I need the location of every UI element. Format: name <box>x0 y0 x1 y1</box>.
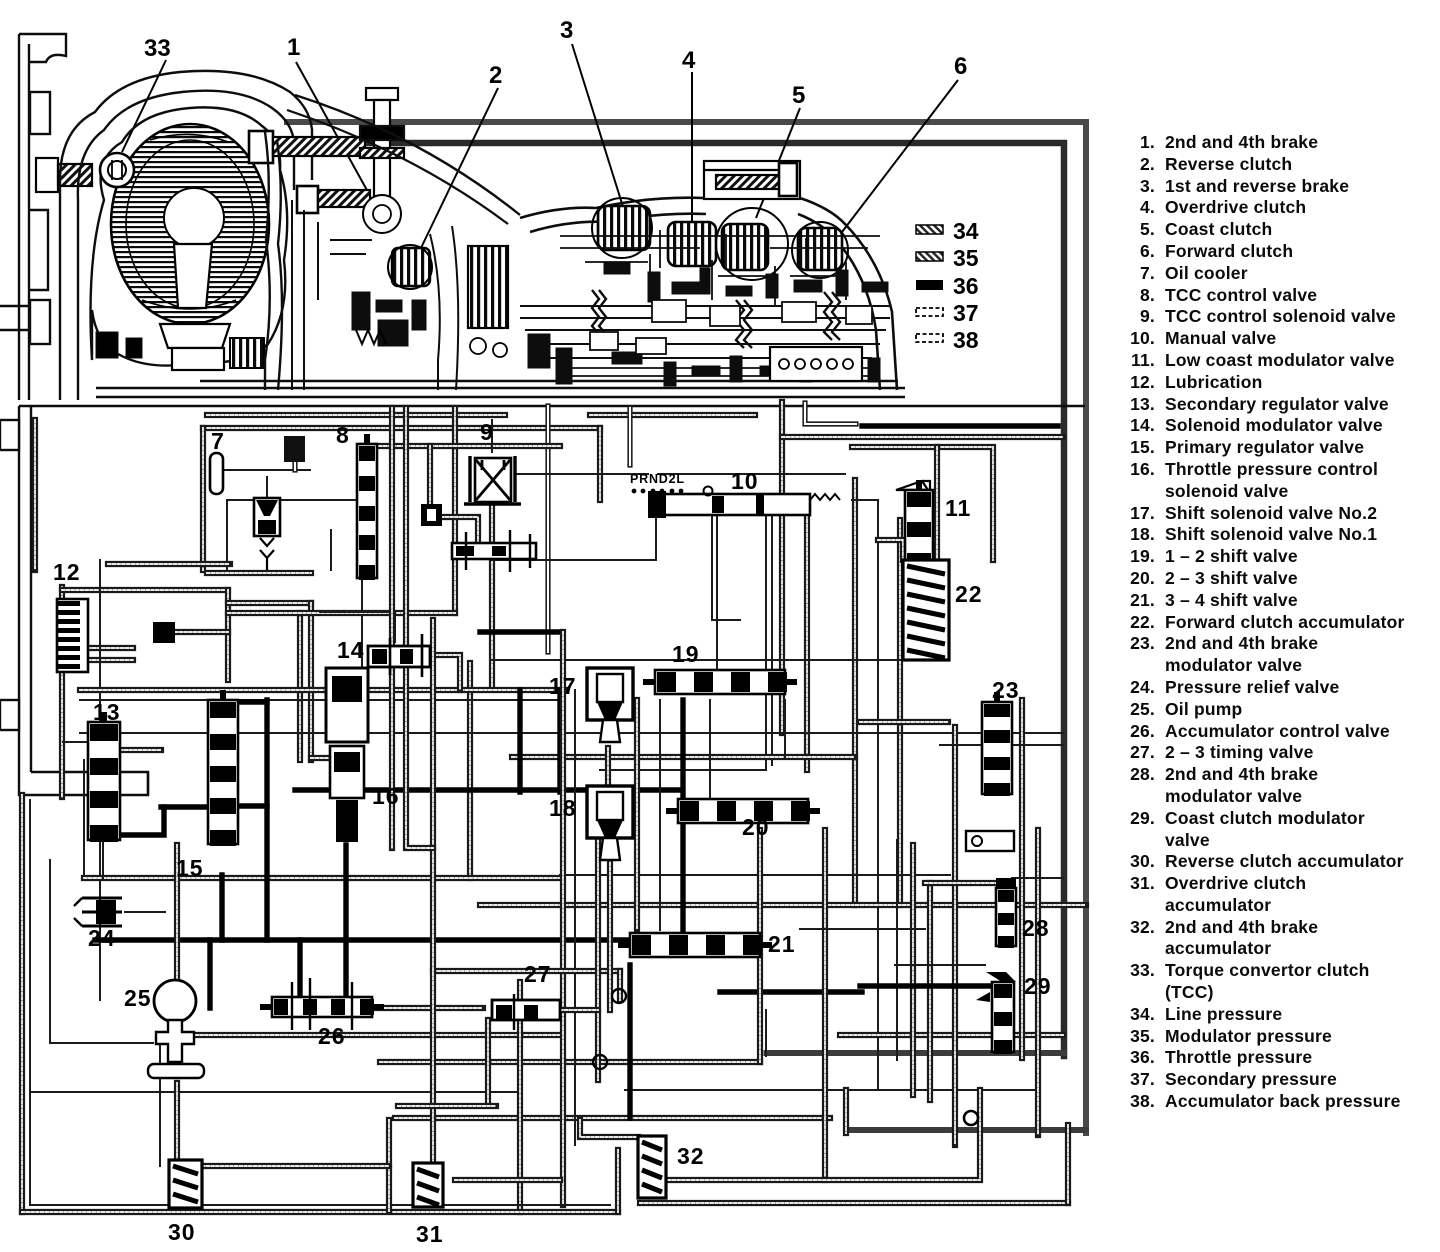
clutch drum 5 <box>722 224 768 270</box>
wire long v 406 <box>406 408 433 848</box>
svg-text:11: 11 <box>945 495 971 521</box>
wire 27 right <box>560 1007 598 1013</box>
wire rail 1062 <box>380 1059 760 1065</box>
svg-text:30: 30 <box>168 1219 196 1245</box>
svg-text:34: 34 <box>953 218 979 244</box>
wire black 19-21 <box>680 700 685 930</box>
wire 13 right <box>120 747 161 753</box>
wire v 520 low <box>517 982 523 1212</box>
wire inner box left <box>226 500 228 573</box>
right case outline <box>520 198 897 390</box>
legend list <box>1121 132 1405 1113</box>
wire inner box top <box>227 499 362 501</box>
wire 28 rail right <box>1012 877 1063 879</box>
wire 23 rail <box>940 744 1063 746</box>
wire bottom up right <box>1065 1125 1071 1203</box>
wire 20 down <box>757 830 763 1062</box>
wire rail 437 <box>782 434 1063 440</box>
wire long v 433 <box>430 620 436 1205</box>
svg-text:36: 36 <box>953 273 979 299</box>
wire 10 drop b <box>771 516 773 765</box>
svg-text:2: 2 <box>489 62 502 89</box>
wire 24 right <box>125 911 165 913</box>
wire v 228 <box>225 590 231 680</box>
wire rail 905 <box>480 902 1086 908</box>
wire loop top rail <box>108 561 230 567</box>
mid small circles <box>470 338 486 354</box>
wire rail 613 <box>228 610 455 616</box>
junction box 8-9 <box>421 504 442 526</box>
wire right drop 766 <box>765 1010 767 1056</box>
wire 9 down long <box>489 505 495 688</box>
wire black 702 <box>210 699 267 704</box>
clutch drum 3 <box>598 206 650 250</box>
svg-text:5: 5 <box>792 82 805 109</box>
wire rail 1090 right <box>625 1089 1035 1091</box>
transmission case left flange <box>0 34 66 400</box>
svg-text:22: 22 <box>955 581 983 607</box>
callout circle 5 <box>716 208 788 280</box>
wire cooler tube <box>223 469 310 471</box>
svg-text:38: 38 <box>953 327 979 353</box>
wire cooler box left <box>200 428 206 570</box>
wire v 563 <box>560 632 566 1205</box>
wire loop rail b <box>207 570 311 576</box>
reverse clutch accumulator 30 <box>169 1160 202 1208</box>
wire v 1038 <box>1035 830 1041 1135</box>
node box on rail 857 <box>966 831 1014 851</box>
wire top rail a <box>207 412 505 418</box>
svg-text:19: 19 <box>672 641 700 667</box>
wire rail 929 <box>800 928 925 930</box>
svg-text:15: 15 <box>176 855 204 881</box>
wire rail 1118 <box>395 1115 830 1121</box>
hub cluster below drum2 <box>352 292 426 346</box>
wire 22 bottom <box>860 719 948 725</box>
flange hex bolt <box>36 158 92 192</box>
wire black rail 940 <box>95 937 680 942</box>
wire rail 1035 <box>177 1032 560 1038</box>
wire v 610 low <box>607 830 613 1010</box>
wire bottom rail right <box>640 1200 1068 1206</box>
lower left case <box>0 406 148 795</box>
pressure relief valve 24 <box>74 898 122 926</box>
callout line 2 <box>420 88 498 250</box>
wire rail 447 corner <box>852 447 993 560</box>
wire 13-15 black elbow <box>95 807 164 835</box>
svg-text:27: 27 <box>524 961 552 987</box>
wire 26 black v <box>297 940 302 996</box>
wire 27 box top <box>433 968 620 974</box>
node circle rail 1062 <box>593 1055 607 1069</box>
callout line 6 <box>842 80 958 232</box>
wire 19-21 drop <box>634 700 640 930</box>
wire 31 drop <box>386 1120 392 1211</box>
svg-text:8: 8 <box>336 422 350 448</box>
wire rail 878 <box>84 875 560 881</box>
wire left drop <box>32 420 38 570</box>
wire 26 black in <box>207 940 212 1008</box>
callout circle 3 <box>592 198 652 258</box>
wire 27 box right <box>617 971 623 1000</box>
manual valve 10 <box>648 487 840 519</box>
ribbed block mid <box>468 246 508 328</box>
wire 10 drop hatched <box>804 515 810 770</box>
svg-text:16: 16 <box>372 783 400 809</box>
wire rail 603 <box>228 600 311 606</box>
forward clutch accumulator 22 <box>903 560 949 660</box>
wire left border <box>19 795 25 1212</box>
wire 10 left down <box>492 516 656 560</box>
low coast modulator valve 11 hat <box>896 481 930 493</box>
wire 28 feed <box>925 880 1010 886</box>
wire v 598 <box>595 840 601 1080</box>
node circle 27 right <box>612 989 626 1003</box>
wire long v 575 <box>574 690 576 1145</box>
svg-text:13: 13 <box>93 699 121 725</box>
wire 10 drop a <box>765 516 767 770</box>
wire 9 to manual valve <box>517 473 648 475</box>
1-2 shift valve 19 <box>643 670 797 694</box>
wire junction to check assy <box>441 517 478 546</box>
svg-text:3: 3 <box>560 17 573 44</box>
throttle pressure key bar 36 <box>916 280 943 290</box>
wire thin rail 660 <box>490 659 925 661</box>
wire 10 down a <box>712 516 740 620</box>
svg-text:26: 26 <box>318 1023 346 1049</box>
shift solenoid valve No.1 (18) <box>587 786 633 860</box>
oil cooler 7 <box>210 436 305 570</box>
coast clutch modulator valve 29 <box>992 972 1014 1054</box>
wire case drop 782 <box>779 402 785 733</box>
wire top rail b <box>590 412 755 418</box>
wire pump down <box>174 1083 180 1160</box>
wire v 930 <box>927 883 933 1100</box>
wire into 32 <box>580 1120 638 1137</box>
wire 8 down <box>361 578 363 690</box>
wire v 855 <box>852 480 858 905</box>
wire v long 955 <box>952 727 958 1145</box>
spring W <box>356 330 386 344</box>
callout line 5 <box>756 108 800 218</box>
wire black v 520 <box>517 690 522 792</box>
bolt pedestal <box>704 161 800 199</box>
wire check down <box>330 530 332 570</box>
svg-text:PRND2L: PRND2L <box>630 472 685 486</box>
second bolt <box>297 186 370 213</box>
wire 15 to black v <box>236 803 267 808</box>
wire rail 875 thin <box>560 874 950 876</box>
shaft lines <box>520 306 890 358</box>
2nd and 4th brake modulator valve 23 <box>982 692 1012 796</box>
wire 21 down <box>627 965 632 1118</box>
svg-text:24: 24 <box>88 925 116 951</box>
wire black rail 992 <box>720 989 862 994</box>
wire 13 left <box>63 741 86 743</box>
accumulator back pressure key bar 38 <box>916 334 943 342</box>
bell housing scalloped contours <box>60 71 312 400</box>
wire 19 to 20 <box>709 700 711 797</box>
wire 17 down <box>605 748 611 786</box>
callout line 4 <box>691 72 693 222</box>
3-4 shift valve 21 <box>618 933 772 957</box>
wire top outer frame <box>287 122 1086 1133</box>
28 top cap <box>996 878 1016 888</box>
gear blocks row <box>528 262 888 386</box>
svg-text:7: 7 <box>211 428 225 454</box>
svg-text:35: 35 <box>953 245 979 271</box>
wire corner white pipe <box>805 403 856 424</box>
wire black rail 790 <box>295 787 680 792</box>
29 hat <box>986 972 1016 982</box>
wire 32 rail <box>668 1090 980 1180</box>
svg-text:6: 6 <box>954 53 967 80</box>
2-3 shift valve 20 <box>666 799 820 823</box>
wire 9 up <box>491 420 493 452</box>
2nd and 4th brake modulator valve 28 <box>996 878 1016 948</box>
stud and anchor (item 1) <box>360 88 404 233</box>
svg-text:21: 21 <box>768 931 796 957</box>
svg-text:10: 10 <box>731 468 759 494</box>
wire 13 down <box>102 840 104 878</box>
svg-text:14: 14 <box>337 637 365 663</box>
bell right wall <box>265 132 282 390</box>
bottom case band <box>19 381 1085 406</box>
2nd and 4th brake accumulator 32 <box>638 1136 666 1198</box>
wire 16 down <box>343 845 348 997</box>
wire bottom border <box>22 1209 618 1215</box>
wire 14 up <box>320 612 395 642</box>
wire bottom right outer <box>846 1127 1086 1133</box>
springs <box>592 290 840 348</box>
callout line 1 <box>296 62 368 192</box>
low coast modulator valve 11 <box>905 480 933 568</box>
wire cooler box right <box>597 428 603 500</box>
wire comb a <box>88 645 133 651</box>
check valve assembly <box>452 530 536 572</box>
wire mid rail 690 <box>80 687 565 693</box>
wire 10 to 19 <box>716 516 718 668</box>
wire 26 right <box>375 1005 483 1011</box>
wire drop to junction <box>427 446 433 504</box>
callout line 3 <box>572 44 624 210</box>
wire v 311 <box>308 603 314 760</box>
wire 29 rail <box>895 964 985 966</box>
wire v 300 <box>297 613 303 760</box>
modulator pressure key bar 35 <box>916 252 943 261</box>
middle case walls <box>292 200 458 390</box>
case top diagonal edge <box>295 95 520 215</box>
solenoid modulator valve 14 <box>368 634 430 677</box>
wire rail 1035 right <box>840 1032 1063 1038</box>
wire black v 267 <box>264 700 269 940</box>
wire rail to black box <box>658 473 845 475</box>
wire 30 vert <box>159 1046 161 1166</box>
line pressure key bar 34 <box>916 225 943 234</box>
clutch drum 6 <box>798 228 842 270</box>
wire v 897 <box>896 840 898 1060</box>
wire long v 470 <box>467 663 473 878</box>
TCC control solenoid valve 9 <box>464 456 521 504</box>
bell bottom hub parts <box>96 324 264 370</box>
wire left border inner <box>29 800 31 1205</box>
svg-text:4: 4 <box>682 47 696 74</box>
wire v 1022 <box>1019 700 1025 1058</box>
svg-text:23: 23 <box>992 677 1020 703</box>
wire right long drop <box>897 520 903 905</box>
solenoid connector block <box>770 347 862 381</box>
wire black v 560 <box>557 690 562 792</box>
callout line 33 <box>122 60 166 152</box>
wire lube box left <box>59 587 65 797</box>
wire left long vertical <box>99 560 101 1000</box>
svg-text:18: 18 <box>549 795 577 821</box>
wire cooler box top <box>203 425 600 431</box>
wire 15 down <box>219 875 224 940</box>
svg-text:17: 17 <box>549 673 577 699</box>
wire 31 rail <box>455 1177 560 1183</box>
wire 19-21 thin <box>659 700 661 930</box>
wire 29 black feed <box>860 983 1002 988</box>
wire to 22 <box>878 540 903 560</box>
wire v 913 <box>910 845 916 1095</box>
overdrive clutch accumulator 31 <box>413 1163 443 1207</box>
wire rail above 8 <box>360 443 560 449</box>
wire bottom right up <box>615 1150 621 1212</box>
wire rail 757 <box>512 754 855 760</box>
wire 10 right squiggle drop <box>852 500 878 1090</box>
svg-text:1: 1 <box>287 34 300 61</box>
wire top inner frame <box>287 143 1064 1056</box>
wire 30 rail <box>202 1163 389 1169</box>
svg-text:29: 29 <box>1024 973 1052 999</box>
svg-text:31: 31 <box>416 1221 444 1247</box>
wire rail 1092 <box>30 1091 520 1093</box>
oil pump 25 <box>148 980 204 1078</box>
wire into 16 <box>311 755 342 761</box>
wire black 632 <box>480 629 563 634</box>
wire 27 left down <box>485 1020 491 1103</box>
wire 14 right <box>430 655 460 690</box>
wire cooler riser <box>292 462 297 470</box>
callout circle 2 <box>388 245 432 289</box>
wire right drop 846 <box>843 1090 849 1133</box>
wire to check valve <box>266 477 268 498</box>
svg-text:9: 9 <box>480 419 494 445</box>
primary regulator valve 15 <box>208 690 238 846</box>
wire 19 right down <box>784 700 786 757</box>
wire cooler return drop <box>452 408 458 613</box>
clutch drum 4 <box>668 222 716 266</box>
wire 15 in <box>161 804 206 809</box>
wire rail 426 <box>862 423 1058 428</box>
wire long v 392 <box>389 408 395 848</box>
lubrication 12 <box>57 599 175 672</box>
wire long drop to 19 <box>545 406 550 652</box>
wire long thin rail 733 <box>80 732 1063 734</box>
wire 770 left <box>600 769 766 771</box>
accumulator control valve 26 <box>260 997 384 1017</box>
svg-text:25: 25 <box>124 985 152 1011</box>
case small white boxes <box>590 300 872 354</box>
2-3 timing valve 27 <box>492 994 560 1030</box>
11 pointer <box>918 565 932 603</box>
svg-text:33: 33 <box>144 35 171 62</box>
26 stems <box>292 978 352 1030</box>
wire 24-25 loop <box>50 860 153 1043</box>
secondary pressure key bar 37 <box>916 308 943 316</box>
svg-text:12: 12 <box>53 559 81 585</box>
wire drop to 22 <box>934 447 940 560</box>
shift solenoid valve No.2 (17) <box>587 668 633 742</box>
callout circle 6 <box>792 222 848 278</box>
wire pump suction up <box>174 845 180 978</box>
drum 2 ribbed <box>392 248 430 286</box>
secondary regulator valve 13 <box>88 712 120 842</box>
wire box to v228 <box>175 629 228 635</box>
wire bottom border inner <box>30 1204 610 1206</box>
case interior detail lines <box>560 220 880 376</box>
throttle pressure control solenoid valve 16 <box>326 668 368 842</box>
wire lube box top <box>62 587 228 593</box>
svg-text:20: 20 <box>742 814 770 840</box>
torque converter (TCC) hatched torus <box>111 124 269 324</box>
wire 31 box top <box>398 1103 496 1109</box>
wire left thin vertical <box>83 760 85 880</box>
wire bottom right inner <box>766 1050 1064 1056</box>
wire mid rail 700 <box>80 699 560 701</box>
svg-text:32: 32 <box>677 1143 705 1169</box>
TCC control valve 8 <box>357 434 377 580</box>
wire comb b <box>88 657 133 663</box>
upper long bolt <box>249 131 365 163</box>
TCC bolt circle (33) <box>100 153 134 187</box>
svg-text:28: 28 <box>1022 915 1050 941</box>
wire 20 right down long <box>822 830 828 1180</box>
wire drop to manual rail <box>627 408 632 465</box>
circle node bottom right <box>964 1111 978 1125</box>
svg-text:37: 37 <box>953 300 979 326</box>
